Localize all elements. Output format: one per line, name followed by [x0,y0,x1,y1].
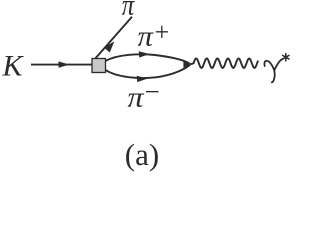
svg-text:π: π [138,22,155,53]
svg-text:π: π [128,83,145,114]
wire pi line (diagonal) [96,17,133,59]
svg-text:−: − [145,77,160,107]
arrowhead on pi line [104,41,114,52]
svg-text:π: π [122,0,135,22]
wire pi- lower arc [106,65,191,79]
wire pi+ upper arc [106,54,191,64]
label gamma* [264,59,282,82]
wire photon wavy [191,58,259,68]
svg-text:+: + [155,18,170,47]
svg-text:(a): (a) [125,137,159,172]
arrowhead on upper arc [139,51,150,57]
arrowhead at loop tip [183,61,190,68]
vertex box [92,59,106,73]
arrowhead on K line [59,61,70,67]
svg-text:K: K [2,50,25,83]
arrowhead on lower arc [137,76,148,82]
wire K line [31,64,92,66]
